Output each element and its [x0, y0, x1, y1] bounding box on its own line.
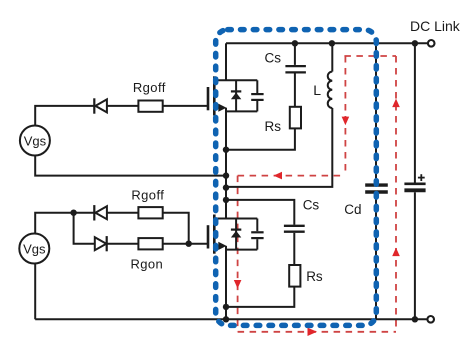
- svg-text:Rs: Rs: [306, 269, 323, 284]
- resistor Rs (lower snubber): [289, 265, 300, 287]
- diode D2 gate turn-off (lower): [94, 205, 107, 220]
- svg-text:L: L: [313, 82, 321, 98]
- wire inductor bottom to phase node: [226, 108, 332, 187]
- junction dot DC link cap on top rail: [412, 40, 418, 46]
- wire Vgs1 bottom return to phase node: [35, 156, 226, 176]
- capacitor Cd: [365, 185, 388, 192]
- red current loop: bottom segment: [238, 331, 396, 333]
- wire Vgs2 bottom return to DC- rail: [34, 264, 36, 320]
- capacitor DC link electrolytic: [404, 184, 425, 191]
- wire Rs1 bottom to source node: [226, 128, 295, 149]
- wire DC link capacitor branch: [414, 43, 416, 319]
- inductor L branch wire top: [331, 43, 333, 71]
- capacitor Cs (lower snubber): [284, 226, 305, 232]
- wire Rgoff2 to gate corner: [163, 213, 189, 244]
- svg-text:Cs: Cs: [303, 198, 320, 213]
- wire top DC+ rail: [226, 42, 427, 44]
- red current loop: right vertical segment: [395, 56, 397, 332]
- svg-text:Vgs: Vgs: [23, 242, 46, 257]
- junction dot Rs2 at source of Q2: [223, 304, 229, 310]
- terminal DC Link positive: [428, 40, 435, 47]
- inductor L coil: [328, 72, 333, 108]
- wire snubber Cs2 branch top: [226, 200, 294, 225]
- svg-text:Cs: Cs: [265, 50, 282, 65]
- red current loop: left vertical segment: [237, 176, 239, 332]
- red arrow left on middle horizontal: [274, 172, 283, 180]
- wire half-bridge leg vertical: [225, 43, 227, 319]
- wire D2 to Rgoff2: [107, 212, 138, 214]
- wire D1 to Rgoff1: [107, 105, 138, 107]
- wire D3 to Rgon: [107, 243, 139, 245]
- plus polarity mark of DC link capacitor: [418, 174, 425, 181]
- body diode of Q2: [231, 219, 241, 250]
- diode D3 gate turn-on (Rgon branch): [95, 236, 107, 251]
- resistor Rgoff (upper): [138, 101, 162, 112]
- mosfet Q2 (low side): [208, 215, 257, 254]
- output capacitance of Q1: [251, 80, 263, 111]
- red arrow down on left vertical: [234, 280, 242, 289]
- junction dot Q2 source on DC- rail: [223, 316, 229, 322]
- wire Rs2 bottom to source rail: [226, 287, 294, 307]
- resistor Rs (upper snubber): [290, 107, 301, 129]
- wire Vgs2 top lead: [35, 213, 94, 234]
- blue dashed module boundary: [216, 30, 377, 326]
- output capacitance of Q2: [251, 219, 263, 250]
- junction dot phase node: [223, 172, 229, 178]
- red current loop: top segment: [344, 55, 396, 57]
- red arrow right on bottom segment: [308, 328, 318, 336]
- red arrow down on inner vertical: [342, 117, 350, 126]
- junction dot Cs2 top at phase leg: [223, 197, 229, 203]
- svg-text:Rs: Rs: [265, 119, 282, 134]
- svg-text:Rgoff: Rgoff: [131, 187, 164, 202]
- red current loop: inner vertical segment near L: [344, 56, 346, 176]
- red arrow up (upper) on right vertical: [392, 99, 400, 108]
- junction dot DC link cap on DC- rail: [412, 316, 418, 322]
- mosfet Q1 (high side): [208, 76, 257, 115]
- voltage source Vgs (lower gate driver): [19, 234, 49, 264]
- red current loop: middle horizontal segment: [238, 175, 346, 177]
- wire Cs1 to Rs1: [294, 74, 296, 107]
- wire bottom DC- rail: [35, 318, 427, 320]
- junction dot L on top rail: [329, 40, 335, 46]
- red arrow up (lower) on right vertical: [392, 248, 400, 257]
- body diode of Q1: [231, 80, 241, 111]
- wire Rgon to gate of Q2: [163, 243, 208, 245]
- svg-text:Rgoff: Rgoff: [133, 80, 166, 95]
- svg-text:DC Link: DC Link: [410, 18, 461, 34]
- svg-text:Vgs: Vgs: [24, 134, 47, 149]
- capacitor Cs (upper snubber): [285, 66, 306, 72]
- wire branch vertical joining Rgoff/Rgon branches: [74, 213, 95, 244]
- diode D1 gate turn-off (upper): [94, 98, 107, 113]
- resistor Rgoff (lower): [138, 207, 162, 218]
- terminal DC Link negative: [427, 316, 434, 323]
- junction dot L bottom at phase leg: [223, 184, 229, 190]
- wire decoupling capacitor Cd branch: [375, 43, 377, 319]
- junction dot gate branches join: [186, 241, 192, 247]
- voltage source Vgs (upper gate driver): [20, 126, 50, 156]
- wire Rgoff1 to gate of Q1: [163, 105, 208, 107]
- junction dot Rs1 at source node: [223, 147, 229, 153]
- junction dot upper gate branch: [70, 210, 76, 216]
- svg-text:Cd: Cd: [344, 202, 361, 217]
- junction dot Cs1 on top rail: [292, 40, 298, 46]
- wire snubber Cs1 branch top: [294, 43, 296, 65]
- wire Vgs1 top lead: [35, 106, 94, 126]
- svg-text:Rgon: Rgon: [131, 256, 164, 271]
- wire Cs2 to Rs2: [293, 233, 295, 265]
- resistor Rgon: [138, 238, 162, 249]
